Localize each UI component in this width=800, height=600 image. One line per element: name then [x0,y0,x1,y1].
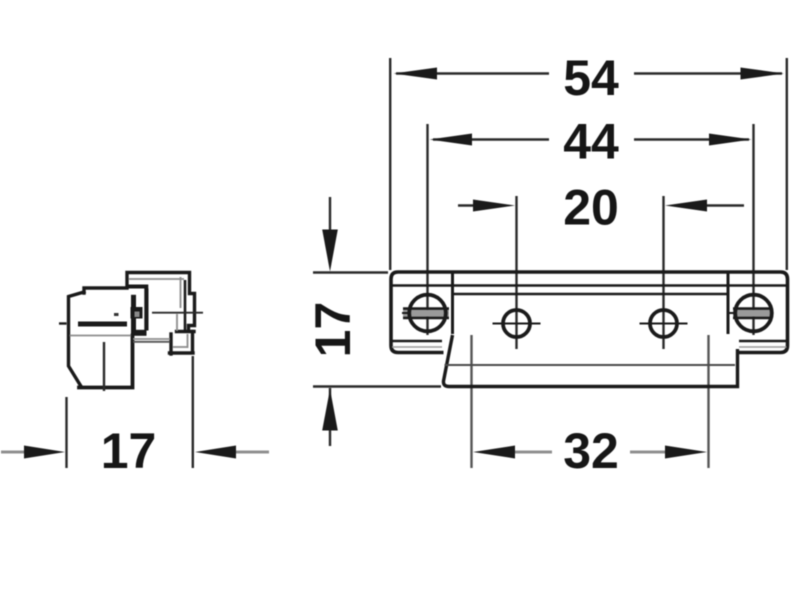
side left tick [59,322,67,324]
side clip jaw [128,285,149,336]
svg-text:17: 17 [101,423,157,479]
small hole left [493,310,541,337]
side centerline horizontal [152,312,203,314]
lower body [443,335,737,387]
right boss edge [727,273,730,334]
dim 54 [390,58,787,270]
dim 17 vertical [313,197,441,446]
svg-text:54: 54 [563,50,619,106]
dim 17 bottom-left [1,356,269,468]
big hole left [409,295,446,332]
side double lines to foot [133,338,170,340]
side gray line [70,335,132,337]
plate inner line between bosses [453,293,729,295]
dim 44 [428,124,754,335]
side foot [177,330,195,333]
svg-text:20: 20 [563,180,619,236]
svg-text:17: 17 [305,302,361,358]
left end cap bottom lines [392,340,442,343]
dim 32 [472,335,709,468]
side small mark [114,313,119,316]
small hole right [640,310,688,337]
plate step line full width [392,284,786,286]
side clip inner verticals [180,277,182,308]
plate outer [391,272,788,353]
slot left hole [402,309,449,318]
side foot inner [173,334,188,348]
left boss edge [451,273,454,334]
side inner top line [129,278,184,280]
big hole right [735,295,772,332]
svg-text:44: 44 [563,114,619,170]
side body outline [69,292,85,386]
dim 20 [458,196,744,349]
svg-text:32: 32 [563,423,619,479]
slot right hole [729,309,772,318]
right end cap bottom lines [739,340,787,343]
side magnet bar [78,322,127,327]
side vertical centerline [103,342,105,391]
